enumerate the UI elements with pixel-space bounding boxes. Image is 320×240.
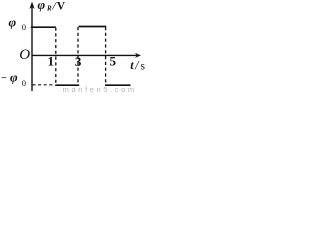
dashed transition at t=5	[105, 27, 107, 85]
x-axis	[32, 53, 142, 58]
svg-text:s: s	[141, 61, 146, 73]
svg-text:3: 3	[75, 54, 82, 69]
svg-text:φ: φ	[9, 14, 17, 29]
svg-text:V: V	[57, 1, 66, 13]
svg-text:O: O	[19, 47, 30, 63]
svg-text:0: 0	[22, 22, 26, 32]
svg-text:R: R	[46, 4, 52, 12]
wave segment +phi0, t=0..1	[32, 26, 56, 28]
wave segment -phi0, t=1..3	[55, 84, 79, 86]
svg-text:1: 1	[48, 54, 55, 69]
dashed transition at t=1	[55, 28, 57, 86]
y-axis	[29, 2, 34, 92]
label phi0 (positive)	[9, 14, 27, 32]
label -phi0 (negative)	[1, 69, 26, 88]
wave segment +phi0, t=3..5	[79, 26, 107, 28]
dashed transition at t=3	[77, 27, 79, 85]
dashed level line -phi0 from axis	[33, 84, 55, 86]
svg-text:φ: φ	[38, 0, 46, 12]
svg-text:0: 0	[22, 78, 26, 88]
x-axis label t/s	[130, 58, 145, 72]
svg-text:.manfen5.com: .manfen5.com	[58, 85, 137, 93]
svg-text:5: 5	[110, 54, 117, 69]
svg-text:φ: φ	[10, 69, 18, 84]
y-axis label phi_R/V	[38, 0, 66, 13]
svg-text:−: −	[1, 73, 7, 84]
wave segment -phi0, t=5..	[105, 84, 131, 86]
